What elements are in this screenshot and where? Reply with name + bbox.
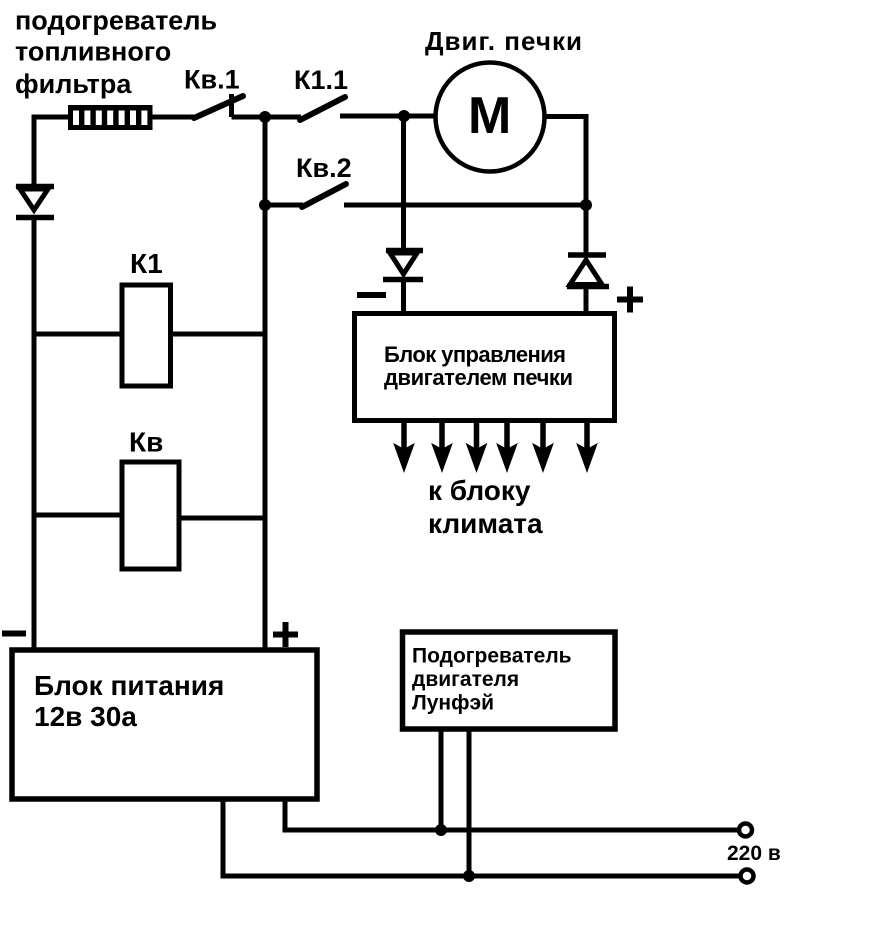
svg-text:M: M bbox=[468, 87, 511, 145]
node at (469,876) bbox=[463, 870, 475, 882]
diode D2 (points down into control block) bbox=[383, 251, 423, 314]
svg-text:фильтра: фильтра bbox=[15, 69, 132, 99]
wire: motor right, down to junction bbox=[544, 117, 586, 206]
switch К1.1 bbox=[265, 97, 404, 120]
wire: heater to switch Кв.1 bbox=[153, 115, 195, 120]
svg-text:Кв: Кв bbox=[129, 427, 163, 458]
wire: node to motor bbox=[404, 114, 436, 119]
wire: К1 to right rail bbox=[171, 332, 266, 337]
wire: power block bottom-left output down and right (lower run) bbox=[223, 799, 746, 876]
wire: heater block left leg bbox=[439, 730, 444, 830]
wire: left rail to К1 bbox=[34, 332, 122, 337]
wire: left rail to Кв bbox=[34, 513, 122, 518]
right long vertical rail: node (265,117) down to power block bbox=[263, 117, 268, 652]
terminal: 220V lower bbox=[741, 870, 754, 883]
minus sign at control block bbox=[357, 292, 386, 298]
svg-text:Кв.2: Кв.2 bbox=[296, 153, 352, 183]
heater element (fuel filter heater) bbox=[68, 105, 153, 130]
diode D1 (left rail, points down) bbox=[16, 187, 54, 218]
svg-text:климата: климата bbox=[428, 508, 543, 539]
plus sign at control block bbox=[617, 287, 643, 313]
diode D3 (points up from control block) bbox=[567, 255, 609, 313]
plus sign at power block bbox=[273, 622, 298, 647]
node at (441,830) bbox=[435, 824, 447, 836]
relay Кв bbox=[122, 462, 179, 569]
node at (265,205) bbox=[259, 199, 271, 211]
left vertical rail top: from heater wire to diode D1 bbox=[32, 115, 37, 189]
svg-text:К1: К1 bbox=[130, 248, 163, 279]
control block U1: Блок управления двигателем печки bbox=[355, 314, 615, 421]
svg-text:Двиг. печки: Двиг. печки bbox=[425, 26, 582, 56]
node at (404,116) bbox=[398, 110, 410, 122]
svg-text:Кв.1: Кв.1 bbox=[184, 65, 240, 95]
svg-text:двигателя: двигателя bbox=[412, 668, 519, 691]
motor M (heater fan motor) bbox=[436, 63, 545, 172]
svg-text:12в 30а: 12в 30а bbox=[34, 701, 137, 732]
svg-text:к блоку: к блоку bbox=[428, 475, 531, 506]
svg-text:топливного: топливного bbox=[15, 37, 171, 67]
engine heater block: Подогреватель двигателя Лунфэй bbox=[403, 632, 616, 729]
svg-text:Блок управления: Блок управления bbox=[384, 342, 566, 367]
switch Кв.1 bbox=[194, 94, 265, 118]
arrows to climate block (6) bbox=[395, 421, 596, 470]
wire: left node to heater bbox=[32, 115, 69, 120]
relay К1 bbox=[122, 285, 171, 386]
node at (586,205) bbox=[580, 199, 592, 211]
switch Кв.2 bbox=[265, 184, 586, 207]
label: к блоку климата bbox=[428, 475, 543, 539]
wire: vertical from node (586,205) down to diode D3 bbox=[584, 205, 589, 257]
svg-text:двигателем печки: двигателем печки bbox=[384, 365, 573, 390]
svg-text:Подогреватель: Подогреватель bbox=[412, 645, 572, 668]
wire: heater block right leg bbox=[467, 730, 472, 876]
svg-text:К1.1: К1.1 bbox=[294, 65, 348, 95]
wire: power block bottom-right output down and right (upper run) bbox=[285, 799, 746, 830]
svg-text:220 в: 220 в bbox=[727, 842, 781, 865]
wire: vertical from node (404,116) down to diode D2 bbox=[401, 116, 406, 252]
svg-text:Лунфэй: Лунфэй bbox=[412, 692, 494, 715]
minus sign at power block bbox=[2, 631, 26, 637]
wire: Кв to right rail bbox=[179, 516, 265, 521]
left vertical rail: diode to power block bbox=[32, 217, 37, 652]
svg-text:Блок питания: Блок питания bbox=[34, 670, 224, 701]
node at (265,117) bbox=[259, 111, 271, 123]
label: подогреватель топливного фильтра bbox=[15, 6, 217, 100]
power supply block: Блок питания 12в 30а bbox=[12, 650, 317, 799]
terminal: 220V upper bbox=[739, 824, 752, 837]
svg-text:подогреватель: подогреватель bbox=[15, 6, 217, 36]
